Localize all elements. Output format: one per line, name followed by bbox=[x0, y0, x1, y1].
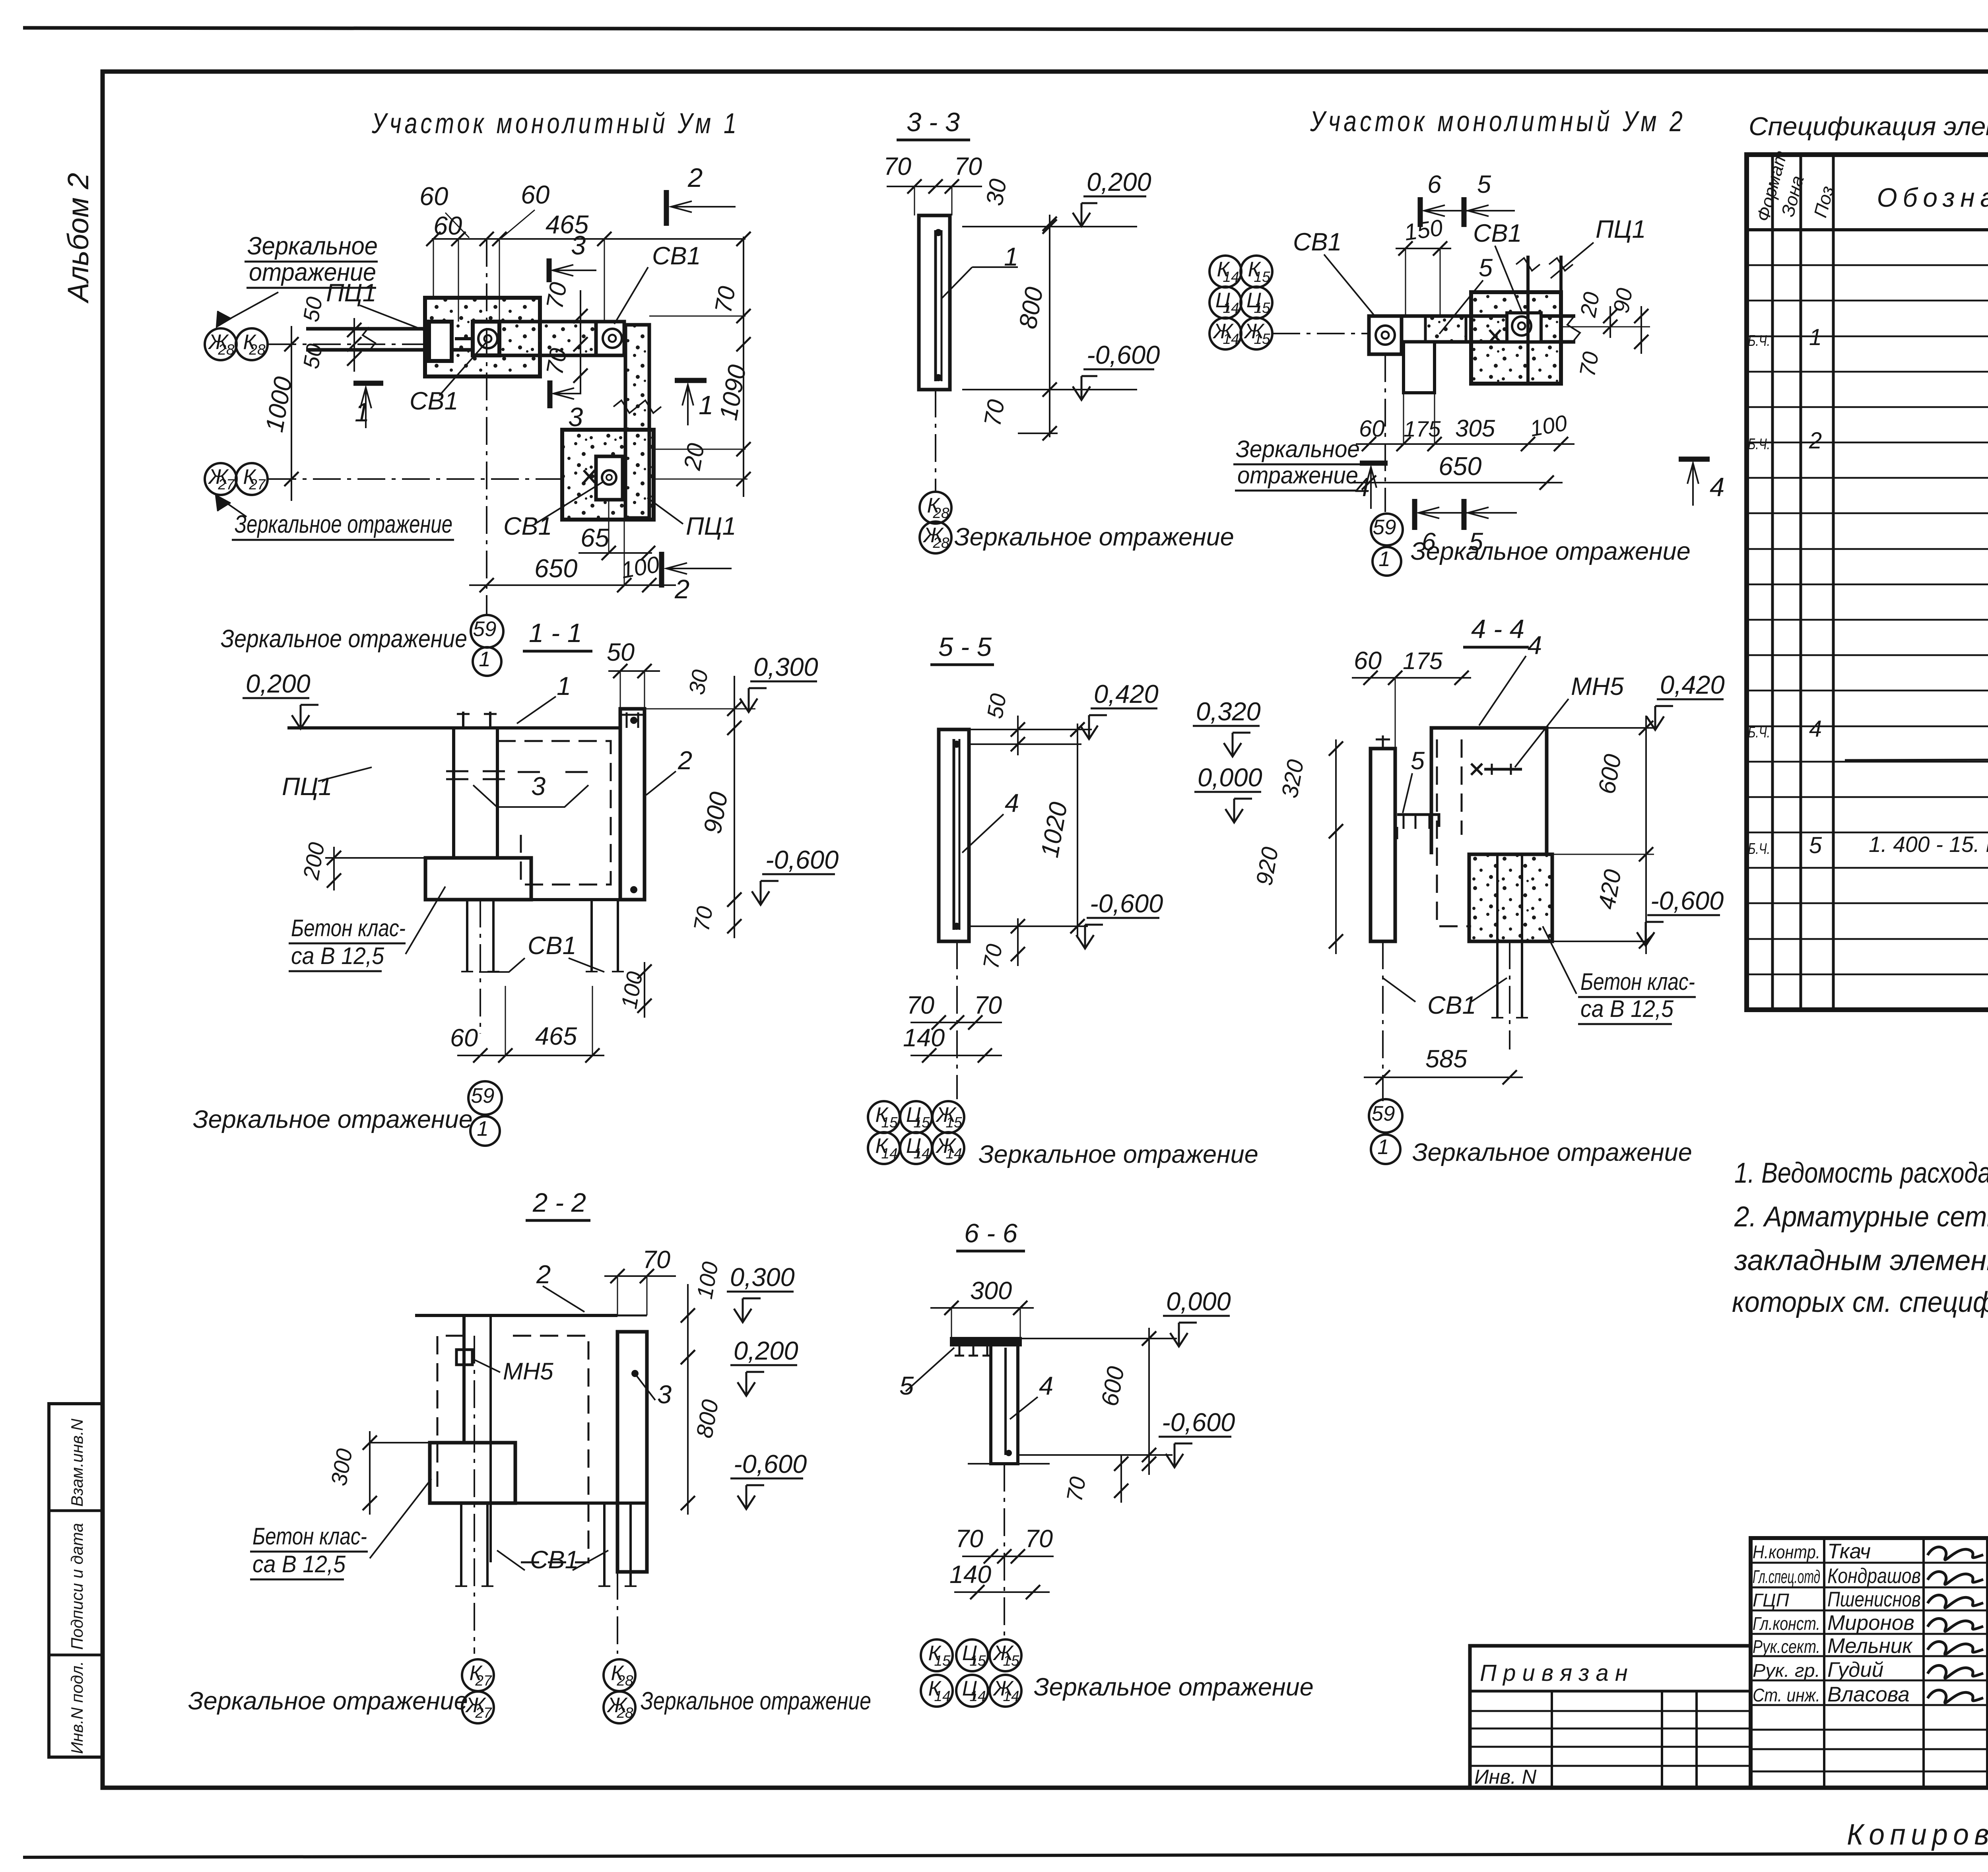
svg-text:15: 15 bbox=[913, 1114, 930, 1131]
svg-text:20: 20 bbox=[679, 441, 710, 472]
svg-text:0,000: 0,000 bbox=[1198, 763, 1262, 792]
svg-text:Спецификация элементов на м: Спецификация элементов на монолитные уча… bbox=[1749, 112, 1988, 141]
svg-text:2: 2 bbox=[678, 746, 692, 775]
svg-text:Участок монолитный Ум 2: Участок монолитный Ум 2 bbox=[1310, 106, 1686, 138]
section 4-4 bracket pos5 bbox=[1397, 815, 1439, 827]
svg-text:Рук.сект.: Рук.сект. bbox=[1753, 1636, 1820, 1657]
svg-text:465: 465 bbox=[535, 1022, 577, 1050]
svg-text:3 - 3: 3 - 3 bbox=[907, 107, 960, 137]
view Um1 section marker 1 left bbox=[353, 381, 383, 386]
svg-text:3: 3 bbox=[571, 231, 586, 260]
view Um2 dims right 20 90 70 bbox=[1609, 306, 1611, 338]
view Um2 dim 650 bbox=[1352, 482, 1563, 483]
svg-text:1: 1 bbox=[479, 648, 490, 671]
section 1-1 dim 200 bbox=[333, 847, 335, 890]
section 1-1 axis circles 59 1 bbox=[468, 1081, 502, 1115]
svg-text:6 - 6: 6 - 6 bbox=[964, 1218, 1018, 1248]
svg-text:15: 15 bbox=[1003, 1653, 1019, 1669]
section 4-4 anchor MN5 top bbox=[1484, 768, 1522, 771]
svg-text:15: 15 bbox=[934, 1653, 951, 1669]
section 2-2 rebar pairs bbox=[460, 1503, 462, 1586]
svg-text:4: 4 bbox=[1005, 788, 1019, 817]
svg-text:Обозначение: Обозначение bbox=[1877, 183, 1988, 213]
svg-text:28: 28 bbox=[616, 1672, 633, 1689]
svg-text:70: 70 bbox=[541, 346, 572, 377]
view Um2 embed plate left bbox=[1369, 316, 1402, 354]
svg-text:70: 70 bbox=[979, 398, 1010, 428]
svg-text:5: 5 bbox=[1411, 747, 1425, 775]
svg-text:28: 28 bbox=[932, 505, 949, 521]
section 2-2 dim 70 top bbox=[604, 1275, 676, 1277]
svg-text:закладным элементам МН 5: закладным элементам МН 5 и стержню поз. … bbox=[1734, 1245, 1988, 1276]
section 6-6 dim 300 bbox=[930, 1307, 1034, 1309]
section 1-1 dim 900 30 bbox=[734, 676, 735, 914]
svg-text:0,000: 0,000 bbox=[1166, 1287, 1231, 1316]
svg-text:Участок монолитный Ум 1: Участок монолитный Ум 1 bbox=[371, 108, 740, 140]
section 4-4 centerlines bbox=[1382, 941, 1384, 1101]
svg-text:650: 650 bbox=[534, 554, 577, 583]
svg-text:140: 140 bbox=[903, 1024, 945, 1052]
view Um2 dim 150 bbox=[1396, 248, 1451, 249]
section 5-5 member bbox=[939, 729, 969, 941]
svg-text:Ст. инж.: Ст. инж. bbox=[1753, 1685, 1820, 1705]
view Um1 right dim column 70 1090 20 bbox=[743, 237, 744, 497]
svg-text:Зеркальное отражение: Зеркальное отражение bbox=[954, 523, 1234, 551]
view Um1 left axis circles Zh28 K28 bbox=[205, 328, 237, 360]
svg-text:1: 1 bbox=[355, 398, 369, 427]
section 5-5 dim 1020 bbox=[1077, 724, 1078, 938]
svg-text:175: 175 bbox=[1404, 416, 1441, 441]
svg-text:59: 59 bbox=[1373, 516, 1396, 539]
view Um1 section marker 3 top bbox=[547, 258, 552, 282]
svg-text:Зеркальное отражение: Зеркальное отражение bbox=[1034, 1673, 1314, 1701]
section 2-2 top line bbox=[415, 1314, 617, 1317]
svg-text:2: 2 bbox=[674, 574, 689, 604]
svg-text:Инв.N подл.: Инв.N подл. bbox=[68, 1661, 86, 1754]
svg-text:0,200: 0,200 bbox=[1087, 167, 1151, 196]
view Um1 top dim line 60 60 465 bbox=[432, 238, 745, 240]
svg-text:4: 4 bbox=[1355, 472, 1370, 502]
svg-text:50: 50 bbox=[607, 638, 635, 666]
view Um1 lower concrete square bbox=[562, 430, 654, 520]
svg-text:Зеркальное отражение: Зеркальное отражение bbox=[193, 1106, 473, 1133]
view Um2 bar stipple section bbox=[1425, 316, 1466, 342]
svg-text:4: 4 bbox=[1039, 1371, 1053, 1400]
svg-text:6: 6 bbox=[1427, 171, 1442, 198]
svg-text:0,320: 0,320 bbox=[1196, 697, 1261, 726]
svg-text:70: 70 bbox=[1574, 350, 1604, 378]
svg-text:14: 14 bbox=[934, 1688, 950, 1704]
svg-text:СВ1: СВ1 bbox=[1473, 219, 1522, 247]
svg-text:70: 70 bbox=[643, 1246, 670, 1274]
svg-text:Зеркальное отражение: Зеркальное отражение bbox=[221, 625, 467, 653]
svg-text:Альбом 2: Альбом 2 bbox=[62, 173, 95, 304]
view Um2 embed plate in square bbox=[1507, 313, 1541, 342]
view Um1 left axis circles Zh27 K27 bbox=[205, 463, 237, 495]
svg-text:1: 1 bbox=[1377, 1135, 1389, 1159]
svg-text:20: 20 bbox=[1575, 290, 1604, 319]
svg-text:Взам.инв.N: Взам.инв.N bbox=[68, 1418, 86, 1507]
svg-text:0,300: 0,300 bbox=[730, 1263, 795, 1292]
view Um1 axis circles 59 1 bbox=[471, 615, 503, 648]
svg-text:Зеркальное отражение: Зеркальное отражение bbox=[1412, 1139, 1692, 1166]
view Um1 PC1 end pocket bbox=[429, 322, 452, 361]
section 6-6 vertical member bbox=[991, 1345, 1018, 1464]
svg-text:5 - 5: 5 - 5 bbox=[938, 632, 992, 662]
svg-text:которых см. спецификации: которых см. спецификации на листах 25 ..… bbox=[1732, 1286, 1988, 1318]
svg-text:Зеркальное: Зеркальное bbox=[1236, 436, 1360, 462]
svg-text:90: 90 bbox=[1608, 286, 1637, 315]
svg-text:60: 60 bbox=[1359, 416, 1385, 442]
svg-text:70: 70 bbox=[1062, 1475, 1091, 1503]
svg-text:14: 14 bbox=[1223, 300, 1239, 316]
svg-text:Миронов: Миронов bbox=[1827, 1611, 1914, 1635]
svg-text:15: 15 bbox=[881, 1114, 898, 1131]
svg-text:Бетон клас-: Бетон клас- bbox=[1580, 968, 1695, 995]
svg-text:ПЦ1: ПЦ1 bbox=[1596, 215, 1646, 243]
section 3-3 dim 800 bbox=[1049, 215, 1050, 437]
svg-text:са В 12,5: са В 12,5 bbox=[291, 943, 384, 969]
svg-text:3: 3 bbox=[657, 1380, 672, 1409]
svg-text:60: 60 bbox=[1354, 647, 1382, 675]
view Um1 centerline vertical bbox=[486, 239, 487, 615]
svg-text:Зеркальное отражение: Зеркальное отражение bbox=[641, 1687, 871, 1715]
svg-text:650: 650 bbox=[1439, 452, 1481, 481]
svg-text:ПЦ1: ПЦ1 bbox=[282, 773, 332, 801]
view Um1 section marker 2 top bbox=[664, 190, 669, 226]
section 4-4 dim 320 bbox=[1335, 739, 1337, 843]
section 1-1 ground top line bbox=[287, 726, 620, 729]
svg-text:2: 2 bbox=[536, 1260, 551, 1289]
svg-text:585: 585 bbox=[1425, 1045, 1468, 1073]
view Um1 vertical strip bbox=[625, 325, 649, 518]
svg-text:70: 70 bbox=[710, 284, 741, 315]
section 5-5 dims 70 70 140 bbox=[911, 1022, 1002, 1023]
svg-text:70: 70 bbox=[1025, 1525, 1053, 1553]
section 3-3 centerline bbox=[935, 390, 936, 493]
view Um1 dim 650 100 bbox=[469, 584, 676, 586]
svg-text:Пшениснов: Пшениснов bbox=[1827, 1588, 1921, 1611]
svg-text:0,420: 0,420 bbox=[1094, 679, 1159, 708]
section 4-4 dim 585 bbox=[1364, 1077, 1523, 1078]
svg-text:СВ1: СВ1 bbox=[528, 932, 577, 960]
section 4-4 dashed inner bbox=[1437, 739, 1471, 926]
svg-text:Б.Ч.: Б.Ч. bbox=[1748, 724, 1770, 741]
view Um2 marker 4 left bbox=[1360, 461, 1388, 466]
svg-text:60: 60 bbox=[521, 180, 549, 209]
svg-text:ГЦП: ГЦП bbox=[1753, 1590, 1789, 1610]
svg-text:1: 1 bbox=[1378, 547, 1390, 571]
svg-text:Б.Ч.: Б.Ч. bbox=[1748, 436, 1770, 453]
svg-text:60: 60 bbox=[419, 182, 448, 211]
svg-text:14: 14 bbox=[913, 1145, 930, 1162]
svg-text:Зеркальное: Зеркальное bbox=[247, 232, 378, 260]
svg-text:Бетон клас-: Бетон клас- bbox=[252, 1523, 367, 1550]
view Um1 concrete patch left bbox=[425, 298, 540, 376]
svg-text:15: 15 bbox=[969, 1653, 986, 1669]
svg-text:Бетон клас-: Бетон клас- bbox=[291, 915, 406, 941]
svg-text:-0,600: -0,600 bbox=[1162, 1408, 1235, 1437]
svg-text:70: 70 bbox=[978, 942, 1007, 971]
section 3-3 inner bar bbox=[934, 230, 937, 381]
view Um2 big concrete square bbox=[1471, 292, 1561, 384]
svg-text:14: 14 bbox=[1003, 1688, 1019, 1704]
svg-text:ПЦ1: ПЦ1 bbox=[686, 512, 736, 540]
svg-text:-0,600: -0,600 bbox=[1650, 886, 1724, 915]
section 2-2 wall verticals bbox=[462, 1315, 466, 1443]
svg-text:14: 14 bbox=[1223, 331, 1239, 347]
svg-text:140: 140 bbox=[949, 1561, 991, 1589]
view Um1 axis centerline lower bbox=[268, 478, 565, 480]
section 3-3 top dim 70 70 bbox=[887, 186, 982, 187]
view Um1 dim 1000 between axes bbox=[291, 326, 292, 501]
sheet bottom edge line bbox=[23, 1853, 1988, 1857]
section 4-4 dims 60 175 bbox=[1352, 677, 1471, 679]
svg-text:28: 28 bbox=[248, 341, 266, 358]
section 2-2 bottom line bbox=[430, 1501, 647, 1505]
section 5-5 axis circles grid bbox=[868, 1101, 900, 1133]
svg-text:П р и в я з а н: П р и в я з а н bbox=[1480, 1660, 1628, 1686]
svg-text:Подписи и дата: Подписи и дата bbox=[68, 1523, 86, 1650]
section 1-1 rebar cross marks bbox=[446, 770, 468, 772]
svg-text:ПЦ1: ПЦ1 bbox=[326, 279, 377, 307]
section 1-1 centerline below bbox=[480, 900, 481, 1034]
svg-text:5: 5 bbox=[1479, 254, 1493, 282]
section 2-2 axis circles bbox=[462, 1659, 494, 1691]
signature table grid bbox=[1751, 1538, 1988, 1788]
section 2-2 dim 100 bbox=[687, 1284, 689, 1368]
svg-text:27: 27 bbox=[217, 476, 235, 493]
section 2-2 centerlines below bbox=[474, 1336, 475, 1654]
svg-text:Мельник: Мельник bbox=[1827, 1634, 1913, 1658]
svg-text:СВ1: СВ1 bbox=[410, 387, 458, 415]
svg-text:Кондрашов: Кондрашов bbox=[1827, 1564, 1921, 1588]
view Um2 bottom dim 60 175 305 100 bbox=[1356, 443, 1574, 445]
section 5-5 centerline bbox=[956, 941, 958, 1099]
svg-text:Ткач: Ткач bbox=[1827, 1540, 1871, 1563]
view Um1 section marker 2 bottom bbox=[659, 552, 664, 588]
left margin stamp boxes bbox=[49, 1404, 103, 1757]
section 6-6 centerline bbox=[1004, 1464, 1005, 1638]
svg-text:МН5: МН5 bbox=[503, 1358, 553, 1385]
svg-text:са В 12,5: са В 12,5 bbox=[1580, 995, 1674, 1022]
view Um1 mid dim 70 70 bbox=[580, 290, 581, 394]
section 3-3 axis circles K28 Zh28 bbox=[920, 492, 951, 524]
svg-text:Н.контр.: Н.контр. bbox=[1753, 1542, 1820, 1562]
svg-text:70: 70 bbox=[883, 153, 911, 180]
svg-text:50: 50 bbox=[982, 692, 1011, 720]
svg-text:65: 65 bbox=[580, 523, 610, 552]
svg-text:14: 14 bbox=[881, 1145, 897, 1162]
view Um2 leg below bbox=[1404, 342, 1435, 393]
view Um1 weld X mark bbox=[584, 470, 595, 483]
svg-text:1 - 1: 1 - 1 bbox=[529, 618, 582, 648]
section 1-1 bottom dims 60 465 bbox=[457, 1055, 604, 1056]
view Um1 panel PC1 wall lines from left bbox=[306, 327, 426, 331]
view Um1 dim 65 bbox=[579, 552, 652, 554]
svg-text:300: 300 bbox=[970, 1277, 1012, 1305]
svg-text:СВ1: СВ1 bbox=[1293, 228, 1342, 256]
svg-text:2 - 2: 2 - 2 bbox=[532, 1188, 586, 1218]
svg-text:2: 2 bbox=[687, 163, 703, 193]
view Um2 axis circles 59 1 bbox=[1371, 514, 1403, 545]
view Um1 embed plate right bbox=[596, 322, 624, 355]
svg-text:0,200: 0,200 bbox=[734, 1336, 798, 1365]
svg-text:30: 30 bbox=[684, 668, 713, 696]
section 1-1 panel PC1 right bbox=[620, 709, 645, 900]
svg-text:-0,600: -0,600 bbox=[1090, 889, 1163, 918]
section 1-1 footing bbox=[425, 858, 531, 900]
section 2-2 anchor MN5 bbox=[456, 1350, 472, 1365]
svg-text:28: 28 bbox=[932, 535, 949, 551]
svg-text:60: 60 bbox=[433, 211, 462, 240]
svg-text:59: 59 bbox=[471, 1084, 495, 1108]
svg-text:15: 15 bbox=[1254, 269, 1270, 285]
svg-text:4 - 4: 4 - 4 bbox=[1471, 614, 1524, 644]
svg-text:Зеркальное отражение: Зеркальное отражение bbox=[978, 1141, 1258, 1168]
svg-text:Зеркальное отражение: Зеркальное отражение bbox=[235, 510, 452, 538]
svg-text:60: 60 bbox=[450, 1024, 478, 1052]
svg-text:0,200: 0,200 bbox=[246, 669, 311, 698]
section 6-6 axis circles grid bbox=[921, 1639, 953, 1671]
view Um1 axis centerline upper bbox=[268, 343, 427, 345]
svg-text:59: 59 bbox=[1372, 1102, 1395, 1125]
section 6-6 dims 70 70 140 bbox=[962, 1556, 1054, 1557]
section 1-1 wall lines bbox=[452, 728, 455, 859]
svg-text:Гл.спец.отд: Гл.спец.отд bbox=[1753, 1566, 1820, 1587]
svg-text:Б.Ч.: Б.Ч. bbox=[1748, 332, 1770, 349]
view Um2 section markers 6 5 bottom bbox=[1412, 499, 1417, 530]
svg-text:1. 400 - 15. В 1. 150 - 01: 1. 400 - 15. В 1. 150 - 01 bbox=[1869, 832, 1988, 857]
view Um2 weld X bbox=[1489, 330, 1501, 342]
svg-text:Гудий: Гудий bbox=[1827, 1658, 1883, 1682]
section 4-4 foot concrete bbox=[1469, 854, 1552, 941]
section 2-2 panel right bbox=[617, 1332, 647, 1572]
section 1-1 bottom line bbox=[425, 898, 645, 901]
section 2-2 footing bbox=[430, 1443, 515, 1503]
section 4-4 axis circles 59 1 bbox=[1369, 1099, 1402, 1133]
view Um2 bar bbox=[1402, 314, 1575, 318]
view Um1 section marker 3 bottom bbox=[547, 380, 553, 408]
svg-text:5: 5 bbox=[1809, 832, 1822, 858]
svg-text:СВ1: СВ1 bbox=[530, 1546, 579, 1574]
section 4-4 vertical bars bbox=[1496, 854, 1499, 1018]
specification table grid bbox=[1747, 155, 1988, 1010]
svg-text:-0,600: -0,600 bbox=[1087, 340, 1160, 369]
section 2-2 dashed monolith bbox=[437, 1336, 464, 1487]
svg-text:70: 70 bbox=[541, 280, 572, 311]
section 2-2 dim 800 bbox=[687, 1368, 689, 1515]
view Um2 centerline vertical bbox=[1384, 354, 1386, 512]
view Um1 lower embed plate bbox=[596, 456, 623, 500]
svg-text:СВ1: СВ1 bbox=[652, 242, 701, 270]
section 1-1 rebar pairs below bbox=[466, 900, 468, 972]
view Um1 bar to right bbox=[499, 322, 624, 355]
svg-text:Власова: Власова bbox=[1827, 1683, 1910, 1706]
svg-text:27: 27 bbox=[248, 476, 266, 493]
svg-text:28: 28 bbox=[217, 341, 235, 358]
svg-text:1. Ведомость расхода стали: 1. Ведомость расхода стали на Ум 1 и Ум … bbox=[1734, 1157, 1988, 1189]
section 1-1 rebar dowels above line bbox=[462, 712, 464, 728]
view Um1 embed plate SV1 center bbox=[473, 322, 499, 355]
view Um2 marker 4 right bbox=[1679, 457, 1710, 462]
svg-text:0,420: 0,420 bbox=[1660, 670, 1725, 699]
view Um1 section marker 1 right bbox=[675, 378, 707, 383]
svg-text:27: 27 bbox=[475, 1672, 492, 1689]
svg-text:Зеркальное отражение: Зеркальное отражение bbox=[188, 1687, 468, 1715]
svg-text:Инв. N: Инв. N bbox=[1474, 1765, 1537, 1788]
section 4-4 top member outline bbox=[1431, 728, 1547, 854]
section 6-6 studs bbox=[959, 1345, 961, 1356]
svg-text:0,300: 0,300 bbox=[753, 652, 818, 681]
svg-text:15: 15 bbox=[1254, 300, 1270, 316]
svg-text:15: 15 bbox=[1254, 331, 1270, 347]
section 4-4 dim 920 bbox=[1335, 819, 1337, 954]
view Um2 section markers 6 5 top bbox=[1418, 197, 1423, 227]
svg-text:59: 59 bbox=[473, 617, 497, 641]
svg-text:1: 1 bbox=[1809, 324, 1822, 350]
svg-text:Б.Ч.: Б.Ч. bbox=[1748, 840, 1770, 857]
sheet top edge line bbox=[23, 28, 1988, 31]
view Um2 axis centerline bbox=[1272, 333, 1372, 334]
svg-text:50: 50 bbox=[298, 295, 327, 324]
svg-text:70: 70 bbox=[974, 991, 1002, 1019]
svg-text:4: 4 bbox=[1528, 630, 1542, 660]
view Um1 dims 50 50 bbox=[353, 318, 355, 372]
svg-text:СВ1: СВ1 bbox=[1427, 991, 1476, 1019]
svg-text:Рук. гр.: Рук. гр. bbox=[1753, 1660, 1820, 1681]
section 4-4 left panel bbox=[1371, 749, 1395, 941]
svg-text:50: 50 bbox=[298, 342, 327, 371]
svg-text:14: 14 bbox=[969, 1688, 986, 1704]
section 1-1 dashed monolith region bbox=[497, 741, 611, 885]
svg-text:150: 150 bbox=[1403, 215, 1444, 246]
svg-text:14: 14 bbox=[1223, 269, 1239, 285]
svg-text:27: 27 bbox=[475, 1705, 492, 1721]
svg-text:15: 15 bbox=[945, 1114, 962, 1131]
svg-text:2. Арматурные сетки монолитн: 2. Арматурные сетки монолитных участков … bbox=[1734, 1201, 1988, 1233]
svg-text:СВ1: СВ1 bbox=[503, 512, 552, 540]
svg-text:28: 28 bbox=[616, 1705, 633, 1721]
svg-text:3: 3 bbox=[568, 402, 583, 432]
svg-text:МН5: МН5 bbox=[1571, 673, 1624, 700]
section 6-6 top plate bbox=[951, 1339, 1020, 1345]
svg-text:2: 2 bbox=[1809, 428, 1822, 454]
svg-text:1: 1 bbox=[557, 671, 571, 700]
view Um2 PC1 panel vertical bbox=[1526, 256, 1530, 384]
svg-text:Зеркальное отражение: Зеркальное отражение bbox=[1411, 537, 1691, 565]
svg-text:70: 70 bbox=[907, 991, 934, 1019]
section 2-2 dim 300 bbox=[369, 1431, 371, 1515]
section 3-3 member outline bbox=[919, 215, 950, 390]
privyazan table bbox=[1470, 1646, 1751, 1788]
svg-text:Гл.конст.: Гл.конст. bbox=[1753, 1613, 1820, 1634]
svg-text:70: 70 bbox=[689, 904, 718, 933]
section 6-6 dim 600 bbox=[1148, 1328, 1150, 1475]
svg-text:отражение: отражение bbox=[1237, 462, 1358, 489]
svg-text:са В 12,5: са В 12,5 bbox=[252, 1551, 346, 1577]
view Um2 axis circle grid bbox=[1209, 256, 1241, 287]
section 4-4 dim 600 420 bbox=[1645, 716, 1647, 954]
svg-text:30: 30 bbox=[981, 177, 1012, 208]
svg-text:-0,600: -0,600 bbox=[765, 845, 839, 874]
svg-text:3: 3 bbox=[531, 772, 546, 801]
svg-text:175: 175 bbox=[1403, 648, 1443, 674]
svg-text:-0,600: -0,600 bbox=[734, 1449, 807, 1478]
svg-text:4: 4 bbox=[1710, 472, 1724, 502]
svg-text:14: 14 bbox=[945, 1145, 962, 1162]
svg-text:1: 1 bbox=[477, 1117, 488, 1141]
